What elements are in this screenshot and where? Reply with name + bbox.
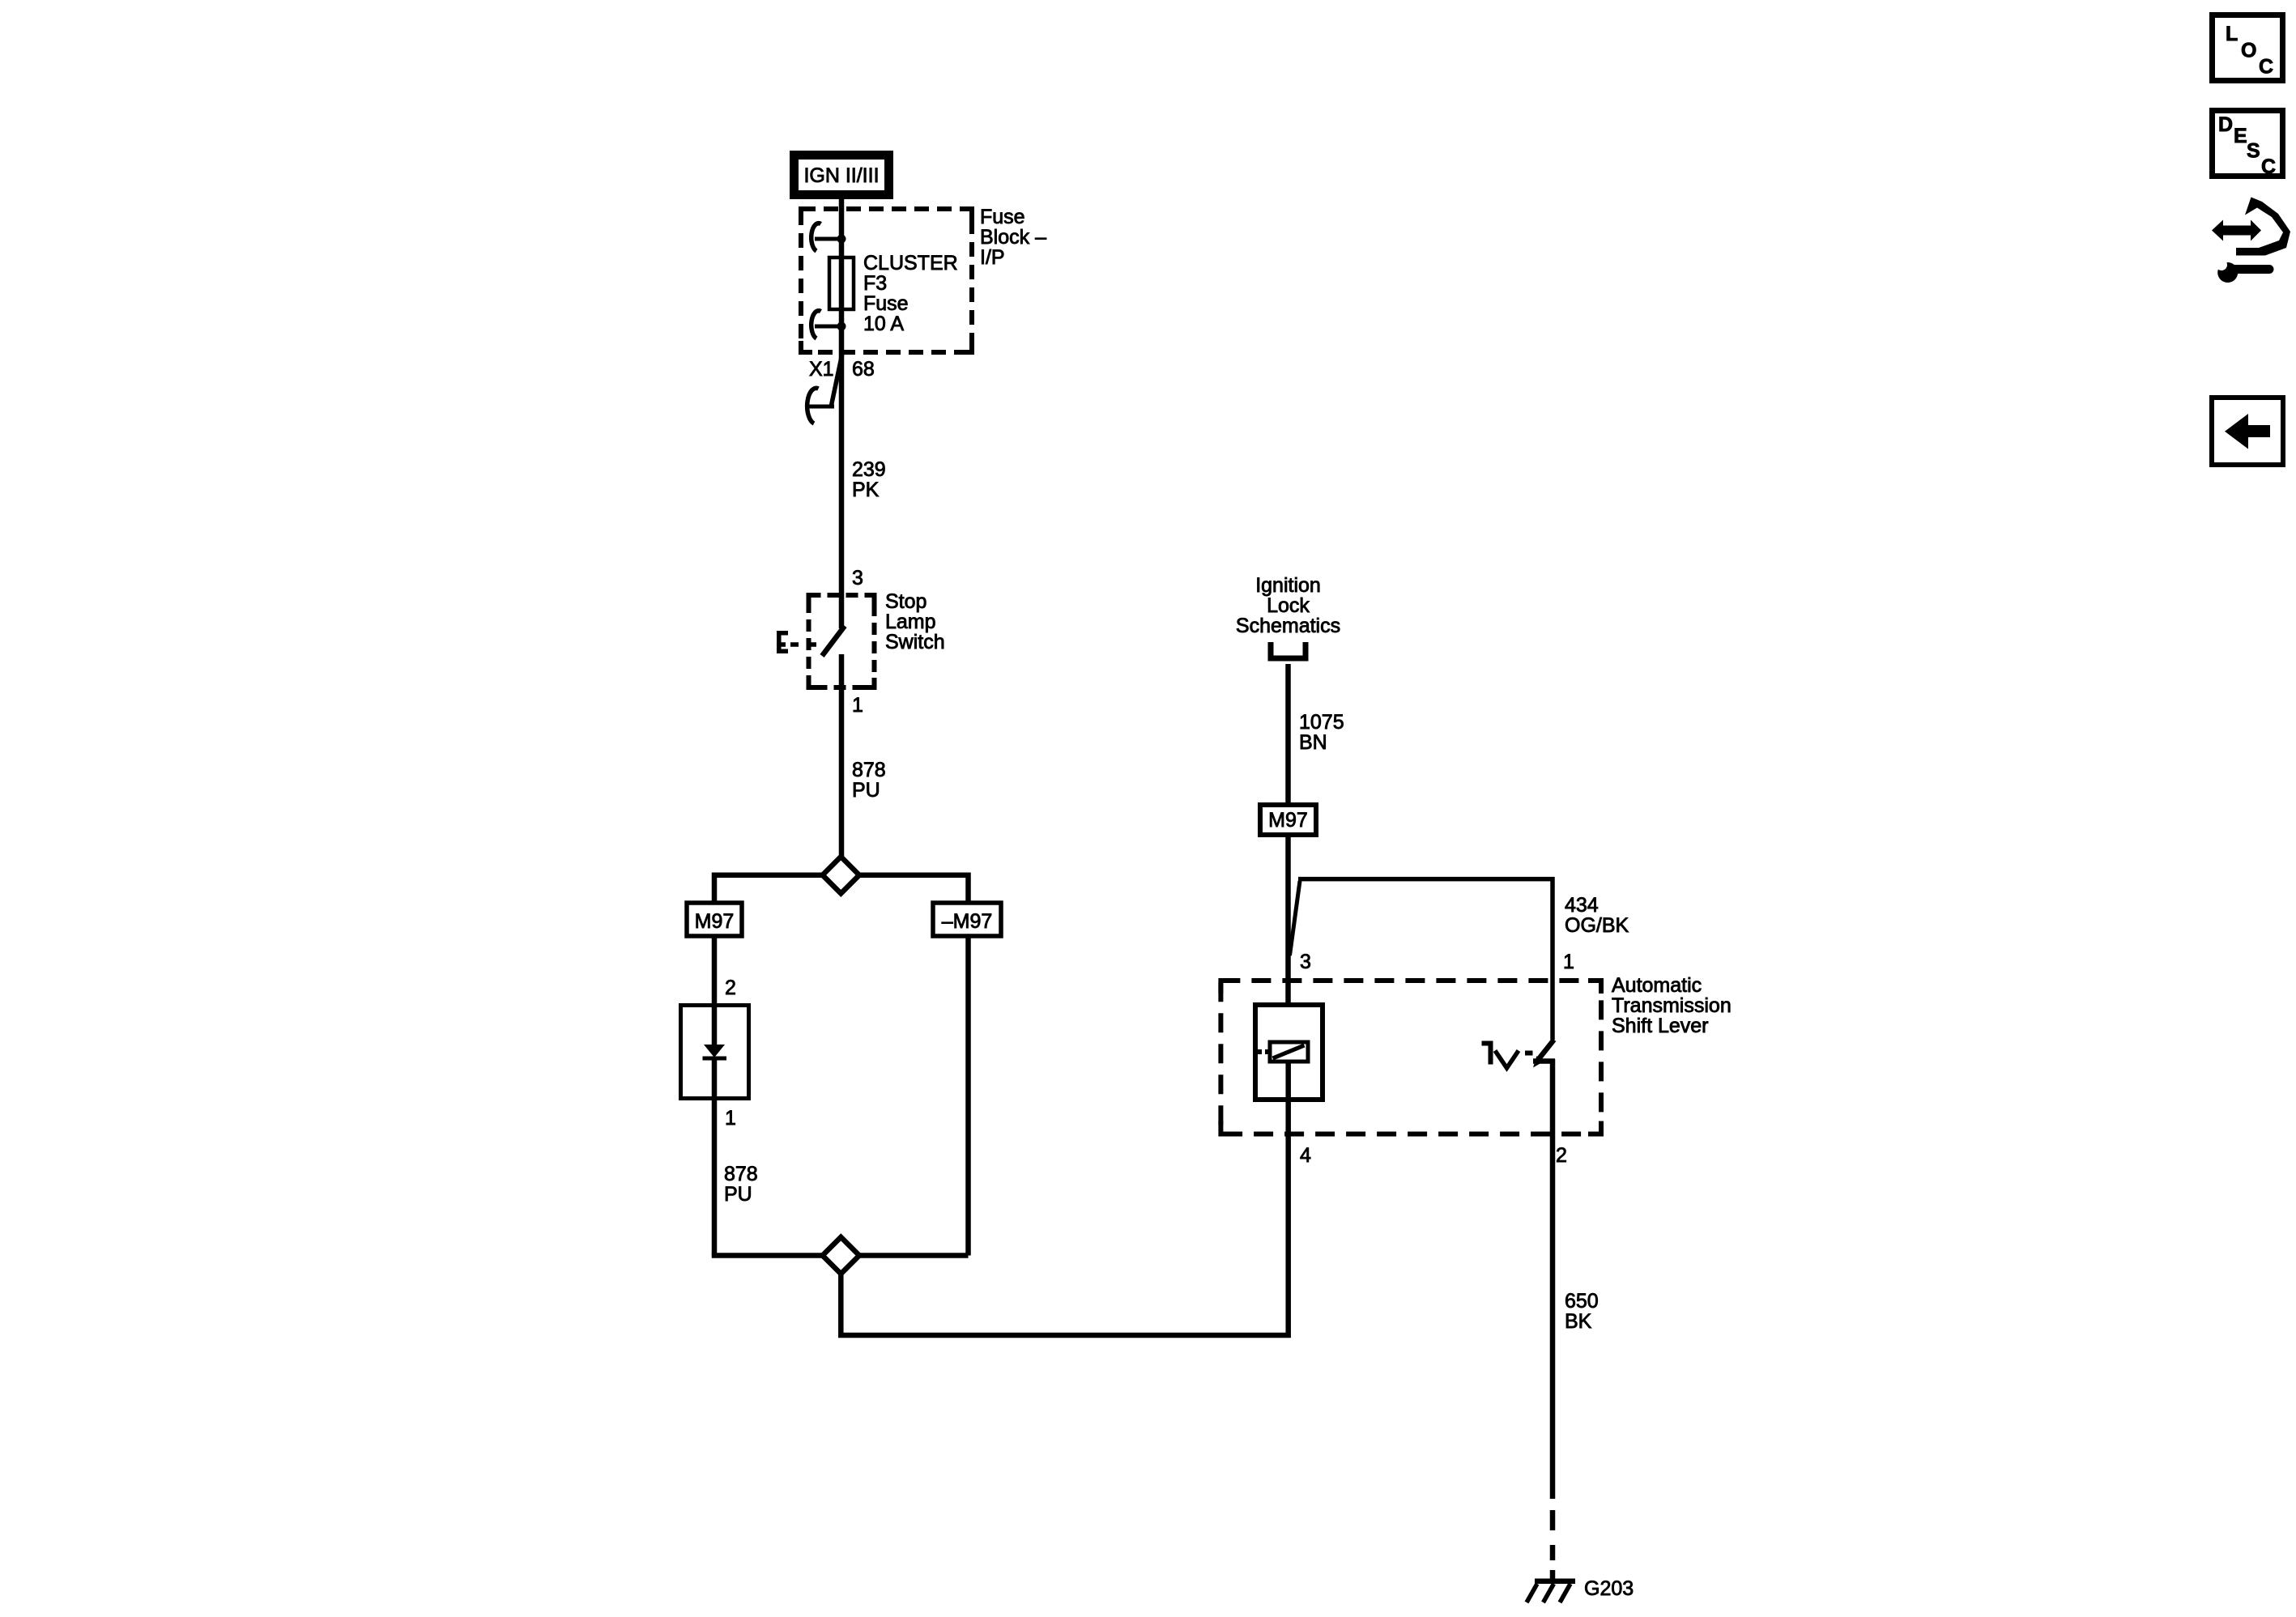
brake pedal actuator E symbol [777, 631, 816, 653]
svg-text:C: C [2259, 56, 2273, 79]
icon LOC box [2213, 15, 2283, 81]
bottom loop wire [712, 1253, 718, 1258]
svg-text:Switch: Switch [885, 631, 945, 653]
wire 434 OG/BK branch [1290, 881, 1301, 955]
svg-text:Fuse: Fuse [980, 206, 1025, 228]
diode symbol [703, 1045, 727, 1058]
svg-text:C: C [2261, 155, 2276, 178]
svg-text:878: 878 [852, 759, 886, 781]
svg-text:E: E [2234, 125, 2247, 147]
svg-text:2: 2 [1556, 1144, 1567, 1167]
svg-text:Stop: Stop [885, 590, 926, 613]
svg-text:Block –: Block – [980, 226, 1046, 249]
svg-text:F3: F3 [863, 272, 887, 295]
wire pin 2 to diode [712, 934, 718, 1005]
svg-text:OG/BK: OG/BK [1565, 914, 1629, 937]
svg-text:–M97: –M97 [942, 910, 993, 933]
svg-text:M97: M97 [1268, 809, 1308, 832]
svg-text:2: 2 [725, 977, 736, 999]
wire M97 to pin 3 [1285, 835, 1291, 1005]
svg-text:10 A: 10 A [863, 313, 904, 335]
connector -M97 (right) [933, 903, 1001, 936]
svg-text:PU: PU [852, 779, 880, 802]
svg-text:1: 1 [725, 1107, 736, 1130]
svg-text:D: D [2218, 113, 2233, 136]
svg-text:Fuse: Fuse [863, 292, 909, 315]
svg-text:Ignition: Ignition [1255, 574, 1321, 597]
svg-text:650: 650 [1565, 1290, 1599, 1313]
svg-text:IGN II/III: IGN II/III [803, 164, 879, 187]
dashed wire to ground [1550, 1510, 1556, 1579]
fuse F3 CLUSTER 10A [829, 257, 854, 309]
wire 1075 BN [1285, 664, 1291, 802]
wire 650 BK pin 2 down [1550, 1059, 1556, 1499]
svg-text:CLUSTER: CLUSTER [863, 252, 958, 274]
svg-text:BN: BN [1299, 731, 1327, 754]
wire 878 PU from switch to splice [839, 654, 845, 857]
connector terminal (fuse output) [811, 311, 846, 338]
wire pin 4 below solenoid [1285, 1063, 1291, 1134]
svg-text:68: 68 [852, 358, 875, 381]
connector M97 (left) [687, 903, 742, 936]
svg-text:Schematics: Schematics [1236, 615, 1340, 637]
connector M97 (ignition lock) [1260, 805, 1316, 835]
svg-text:S: S [2247, 140, 2260, 163]
wire through diode box [712, 1005, 718, 1045]
svg-text:1075: 1075 [1299, 711, 1344, 734]
stop lamp switch dashed box [809, 595, 875, 687]
park position switch [1482, 1040, 1556, 1068]
icon letters LOC [2218, 23, 2276, 178]
svg-text:1: 1 [1563, 951, 1574, 973]
svg-text:434: 434 [1565, 894, 1599, 917]
automatic transmission shift lever dashed box [1220, 981, 1601, 1134]
svg-text:239: 239 [852, 458, 886, 481]
svg-text:I/P: I/P [980, 246, 1005, 269]
diode box [681, 1006, 749, 1099]
splice diamond (top) [823, 857, 859, 893]
power label IGN II/III [794, 155, 889, 195]
wire right branch to -M97 [859, 875, 969, 904]
solenoid coil box with slash [1258, 1042, 1308, 1062]
wire from bottom splice to shift lock solenoid pin 4 [841, 1134, 1288, 1335]
stop lamp switch lever [822, 626, 845, 656]
shift lock solenoid outer box [1255, 1005, 1323, 1100]
wire right branch down [965, 934, 971, 1256]
svg-text:G203: G203 [1584, 1577, 1634, 1600]
connector terminal (fuse feed) [811, 223, 846, 251]
icon back arrow box [2212, 398, 2283, 465]
svg-text:Lamp: Lamp [885, 611, 936, 633]
svg-text:1: 1 [852, 694, 863, 717]
svg-text:BK: BK [1565, 1310, 1592, 1333]
svg-text:PK: PK [852, 479, 880, 501]
svg-text:PU: PU [724, 1183, 752, 1206]
splice diamond (bottom) [823, 1237, 859, 1274]
svg-text:3: 3 [1300, 951, 1311, 973]
svg-text:L: L [2226, 23, 2238, 45]
svg-text:M97: M97 [695, 910, 735, 933]
svg-text:Lock: Lock [1267, 594, 1310, 617]
svg-text:4: 4 [1300, 1144, 1311, 1167]
wire left branch to M97 [714, 875, 823, 904]
svg-text:878: 878 [724, 1163, 758, 1185]
off page reference bracket (Ignition Lock Schematics) [1271, 642, 1306, 658]
icon DESC box [2213, 111, 2283, 177]
wire 239 PK main vertical from fuse block to stop lamp switch [839, 199, 845, 628]
svg-text:X1: X1 [809, 358, 834, 381]
svg-text:Shift Lever: Shift Lever [1612, 1015, 1709, 1037]
svg-text:Automatic: Automatic [1612, 974, 1702, 997]
ground G203 [1527, 1581, 1575, 1602]
connector X1 pin 68 [807, 351, 843, 423]
icon adjust: double arrow with wrench [2212, 198, 2290, 283]
svg-text:Transmission: Transmission [1612, 994, 1732, 1017]
svg-text:O: O [2241, 40, 2256, 62]
fuse block I/P dashed box [801, 209, 972, 352]
svg-text:3: 3 [852, 567, 863, 589]
